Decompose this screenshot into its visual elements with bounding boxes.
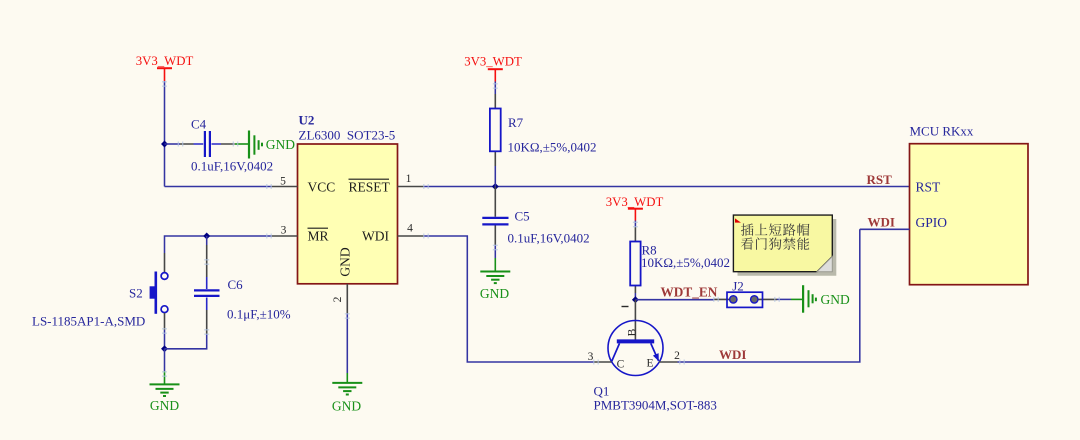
svg-text:3V3_WDT: 3V3_WDT bbox=[606, 195, 664, 209]
wire R7 to RST junction bbox=[494, 166, 496, 187]
pin 3 stub bbox=[272, 235, 298, 237]
junction R7/C5 on RST wire bbox=[492, 183, 499, 190]
wire U2 pin2 down bbox=[346, 314, 348, 374]
note text line1 placeholder bbox=[741, 223, 810, 235]
svg-text:MR: MR bbox=[308, 229, 329, 244]
svg-text:WDI: WDI bbox=[362, 229, 389, 244]
svg-text:GND: GND bbox=[338, 247, 353, 276]
note text line2 placeholder bbox=[741, 237, 809, 250]
svg-text:B: B bbox=[627, 328, 639, 336]
wire 3V3 to R7 bbox=[494, 82, 496, 95]
svg-text:RST: RST bbox=[916, 180, 942, 195]
svg-text:ZL6300 SOT23-5: ZL6300 SOT23-5 bbox=[299, 128, 396, 143]
junction at C4 tap bbox=[161, 141, 168, 148]
IC U2 body bbox=[298, 144, 398, 284]
earth ground under C5 bbox=[480, 258, 510, 301]
junction below S2 bbox=[161, 345, 168, 352]
collector pin stub bbox=[594, 361, 612, 363]
connector J2 pads bbox=[730, 296, 737, 303]
wire J2 to GND bbox=[777, 298, 791, 300]
switch S2 contacts bbox=[161, 273, 168, 280]
svg-text:10KΩ,±5%,0402: 10KΩ,±5%,0402 bbox=[508, 140, 597, 155]
pin 5 stub bbox=[272, 186, 298, 188]
capacitor C5 pins bbox=[494, 187, 496, 246]
wire C6 column bbox=[206, 236, 208, 245]
wire C5 to GND bbox=[494, 245, 496, 258]
collector diagonal bbox=[612, 343, 620, 361]
resistor R8 body bbox=[630, 242, 640, 286]
svg-text:4: 4 bbox=[407, 223, 413, 235]
svg-text:Q1: Q1 bbox=[594, 384, 610, 399]
svg-text:GND: GND bbox=[150, 398, 179, 413]
pin 2 stub bbox=[346, 284, 348, 314]
svg-text:C4: C4 bbox=[191, 117, 207, 132]
svg-text:0.1μF,±10%: 0.1μF,±10% bbox=[227, 307, 291, 322]
connector J2 pin wires bbox=[714, 298, 777, 300]
wire U2 pin4 to Q1 collector bbox=[424, 236, 594, 362]
emitter diagonal bbox=[651, 343, 659, 360]
wire RST net (pin1 to MCU) bbox=[424, 186, 910, 188]
svg-text:U2: U2 bbox=[299, 113, 315, 128]
capacitor C5 plates bbox=[482, 218, 508, 225]
resistor R7 body bbox=[490, 109, 501, 152]
svg-text:VCC: VCC bbox=[308, 180, 336, 195]
svg-text:MCU RKxx: MCU RKxx bbox=[910, 124, 974, 139]
svg-text:PMBT3904M,SOT-883: PMBT3904M,SOT-883 bbox=[594, 398, 717, 413]
wire below S2 bbox=[164, 330, 166, 349]
svg-text:WDT_EN: WDT_EN bbox=[661, 285, 718, 300]
svg-text:10KΩ,±5%,0402: 10KΩ,±5%,0402 bbox=[641, 255, 730, 270]
power port 3V3_WDT (left) bbox=[136, 54, 194, 81]
svg-text:WDI: WDI bbox=[719, 347, 746, 362]
pin name RESET (overline) bbox=[349, 179, 391, 194]
svg-text:E: E bbox=[646, 358, 653, 370]
svg-text:GPIO: GPIO bbox=[916, 215, 948, 230]
wire down to GND under S2 bbox=[164, 349, 166, 371]
junction MR / C6 bbox=[203, 233, 210, 240]
connector J2 body bbox=[727, 292, 763, 307]
svg-text:GND: GND bbox=[332, 399, 361, 414]
transistor Q1 circle bbox=[608, 321, 663, 376]
power port 3V3_WDT (R7) bbox=[464, 55, 522, 82]
svg-text:RST: RST bbox=[867, 172, 893, 187]
power ground symbol at C4 bbox=[235, 131, 295, 159]
base pin number 1 (dash) bbox=[622, 306, 629, 308]
capacitor C4 plates bbox=[205, 131, 210, 157]
switch S2 actuator bbox=[155, 272, 158, 314]
note shadow bbox=[738, 219, 837, 276]
pin 1 stub bbox=[398, 186, 425, 188]
note red marker bbox=[735, 218, 741, 222]
svg-text:1: 1 bbox=[406, 173, 412, 185]
svg-text:GND: GND bbox=[821, 292, 850, 307]
junction R8/Q1/WDT_EN bbox=[632, 296, 639, 303]
wire C6 bottom to S2 bbox=[165, 334, 207, 349]
wire Q1 emitter to MCU GPIO bbox=[678, 229, 860, 362]
svg-text:C6: C6 bbox=[228, 277, 244, 292]
switch S2 top pin bbox=[164, 253, 166, 272]
svg-text:3: 3 bbox=[281, 225, 287, 237]
emitter arrowhead bbox=[653, 353, 659, 361]
svg-text:3: 3 bbox=[588, 351, 594, 363]
svg-text:C5: C5 bbox=[515, 209, 530, 224]
emitter pin stub bbox=[659, 361, 678, 363]
transistor Q1 base pin bbox=[634, 300, 636, 340]
capacitor C4 pins bbox=[180, 143, 235, 145]
svg-text:GND: GND bbox=[266, 137, 295, 152]
resistor R8 pins bbox=[634, 227, 636, 293]
wire WDT_EN bbox=[635, 299, 714, 301]
svg-text:GND: GND bbox=[480, 286, 509, 301]
switch S2 bottom pin bbox=[164, 313, 166, 330]
power port 3V3_WDT (R8) bbox=[606, 195, 664, 221]
svg-text:0.1uF,16V,0402: 0.1uF,16V,0402 bbox=[191, 159, 273, 174]
svg-text:2: 2 bbox=[332, 296, 344, 302]
pin hotspot marks (pale blue) bbox=[162, 82, 779, 376]
wire MR row bbox=[165, 236, 207, 253]
svg-text:WDI: WDI bbox=[868, 215, 895, 230]
note body bbox=[733, 215, 832, 272]
svg-text:LS-1185AP1-A,SMD: LS-1185AP1-A,SMD bbox=[32, 314, 145, 329]
capacitor C6 plates bbox=[194, 290, 220, 296]
wire 3V3 column left bbox=[164, 81, 166, 187]
svg-text:5: 5 bbox=[280, 176, 286, 188]
earth ground under S2 bbox=[150, 371, 180, 413]
MCU body bbox=[910, 144, 1029, 285]
svg-text:J2: J2 bbox=[732, 279, 744, 294]
svg-text:RESET: RESET bbox=[349, 180, 391, 195]
transistor Q1 base bar bbox=[617, 339, 654, 343]
svg-text:R7: R7 bbox=[508, 115, 524, 130]
note fold corner bbox=[817, 257, 832, 272]
svg-text:3V3_WDT: 3V3_WDT bbox=[136, 54, 194, 68]
svg-text:0.1uF,16V,0402: 0.1uF,16V,0402 bbox=[508, 231, 590, 246]
svg-text:3V3_WDT: 3V3_WDT bbox=[464, 55, 522, 69]
capacitor C6 pins bbox=[206, 245, 208, 334]
pin name MR (overline) bbox=[308, 228, 329, 243]
wire to U2 pin 5 bbox=[165, 186, 272, 188]
earth ground under U2 bbox=[332, 373, 362, 414]
wire GPIO bbox=[860, 228, 910, 230]
pin 4 stub bbox=[398, 235, 425, 237]
power ground symbol at J2 bbox=[791, 285, 850, 313]
wire C4 left bbox=[165, 143, 181, 145]
resistor R7 pins bbox=[494, 94, 496, 166]
wire 3V3 to R8 bbox=[634, 221, 636, 228]
svg-text:C: C bbox=[617, 359, 625, 371]
wire R8 to junction bbox=[634, 293, 636, 300]
svg-text:S2: S2 bbox=[129, 286, 143, 301]
